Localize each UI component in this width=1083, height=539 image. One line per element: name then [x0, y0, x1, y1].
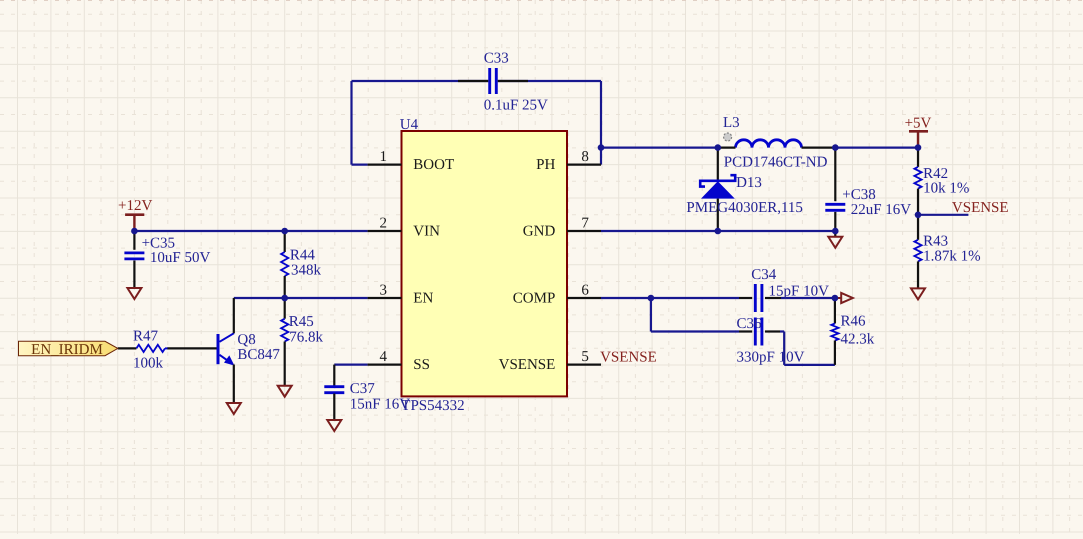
- svg-text:42.3k: 42.3k: [841, 332, 875, 348]
- svg-text:100k: 100k: [133, 355, 164, 371]
- svg-text:4: 4: [380, 349, 388, 365]
- svg-text:22uF 16V: 22uF 16V: [851, 202, 912, 218]
- svg-text:C37: C37: [350, 381, 376, 397]
- svg-text:C34: C34: [751, 267, 777, 283]
- svg-text:C33: C33: [484, 51, 509, 67]
- svg-text:2: 2: [380, 216, 388, 232]
- svg-text:VSENSE: VSENSE: [499, 357, 556, 373]
- svg-text:15pF 10V: 15pF 10V: [769, 284, 830, 300]
- svg-text:EN: EN: [413, 291, 433, 307]
- svg-text:R44: R44: [290, 248, 316, 264]
- svg-text:PCD1746CT-ND: PCD1746CT-ND: [724, 154, 828, 170]
- svg-text:PH: PH: [536, 157, 555, 173]
- svg-text:76.8k: 76.8k: [289, 330, 323, 346]
- svg-text:COMP: COMP: [513, 291, 556, 307]
- svg-text:0.1uF 25V: 0.1uF 25V: [484, 98, 548, 114]
- svg-text:R42: R42: [923, 166, 948, 182]
- svg-text:PMEG4030ER,115: PMEG4030ER,115: [686, 200, 803, 216]
- svg-text:R45: R45: [289, 314, 314, 330]
- svg-text:330pF 10V: 330pF 10V: [737, 350, 805, 366]
- svg-text:BOOT: BOOT: [413, 157, 454, 173]
- svg-text:3: 3: [380, 283, 388, 299]
- svg-text:7: 7: [581, 216, 589, 232]
- svg-text:10k 1%: 10k 1%: [923, 181, 969, 197]
- svg-text:15nF 16V: 15nF 16V: [350, 397, 411, 413]
- svg-text:348k: 348k: [291, 262, 322, 278]
- svg-text:D13: D13: [736, 175, 762, 191]
- svg-text:+12V: +12V: [118, 198, 152, 214]
- svg-text:5: 5: [581, 349, 589, 365]
- svg-text:SS: SS: [413, 357, 430, 373]
- svg-text:EN_IRIDM: EN_IRIDM: [31, 342, 103, 358]
- svg-text:TPS54332: TPS54332: [401, 398, 464, 414]
- svg-text:1: 1: [380, 149, 388, 165]
- svg-text:VIN: VIN: [413, 224, 440, 240]
- svg-text:6: 6: [581, 283, 589, 299]
- svg-text:BC847: BC847: [237, 347, 280, 363]
- svg-text:Q8: Q8: [237, 332, 255, 348]
- svg-text:R43: R43: [923, 234, 948, 250]
- svg-text:U4: U4: [400, 117, 419, 133]
- svg-text:R46: R46: [841, 314, 867, 330]
- svg-text:VSENSE: VSENSE: [600, 350, 657, 366]
- svg-text:+C35: +C35: [142, 235, 175, 251]
- svg-text:+5V: +5V: [905, 116, 932, 132]
- svg-text:+C38: +C38: [842, 187, 875, 203]
- svg-text:VSENSE: VSENSE: [952, 200, 1009, 216]
- svg-text:L3: L3: [723, 115, 740, 131]
- svg-text:GND: GND: [523, 224, 556, 240]
- svg-text:8: 8: [581, 149, 589, 165]
- svg-text:R47: R47: [133, 328, 159, 344]
- svg-text:C36: C36: [737, 316, 763, 332]
- svg-text:10uF 50V: 10uF 50V: [150, 250, 211, 266]
- svg-text:1.87k 1%: 1.87k 1%: [923, 249, 981, 265]
